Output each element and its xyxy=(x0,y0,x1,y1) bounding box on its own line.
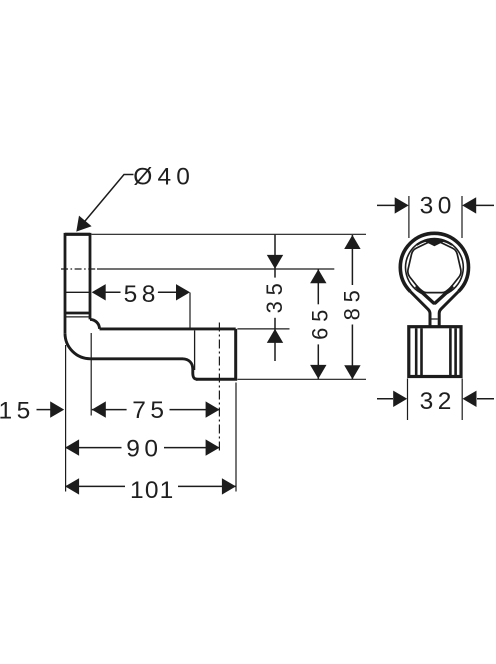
side view: elbow inner bend and pipe top edge xyxy=(90,319,236,329)
leader line for diameter 40 xyxy=(76,175,133,232)
front view: inner heptagon profile xyxy=(408,240,461,292)
svg-text:58: 58 xyxy=(124,281,160,308)
dimension 65 vertical xyxy=(310,269,326,379)
dimension 35 vertical line with outside arrows xyxy=(267,235,283,361)
front view: 32 dim extension lines xyxy=(408,379,463,421)
front view: 30 dim extension lines xyxy=(409,196,462,238)
extension line for 58 at right xyxy=(189,293,191,329)
dimension 58 xyxy=(65,284,190,300)
side view: elbow outer bend xyxy=(65,333,183,359)
centerline horizontal dash-dot through flange xyxy=(61,268,97,270)
side view: flange thin step line xyxy=(65,316,90,318)
front view: filled wedge at heptagon top vertex xyxy=(425,239,445,246)
reference line at ring-axis level xyxy=(97,268,334,270)
reference line at block top level xyxy=(237,328,289,330)
dimension row 15 / 75 xyxy=(37,401,220,417)
block vertical dash-dot centerline xyxy=(218,323,220,454)
dimension 32 xyxy=(377,391,494,407)
top reference line xyxy=(92,233,367,235)
side view: end block right edge and bottom edge xyxy=(196,329,236,379)
dimension row 90 xyxy=(65,439,220,455)
extension line tube right edge down xyxy=(90,333,92,416)
front view: inner Y converging to stem xyxy=(421,292,448,304)
svg-text:30: 30 xyxy=(420,193,456,220)
front view: base block xyxy=(409,327,461,377)
front view: base grip lines xyxy=(416,328,455,375)
front view: ring inner circle xyxy=(406,239,464,294)
svg-text:65: 65 xyxy=(308,304,333,340)
side view: wall flange tube outline xyxy=(65,234,90,333)
svg-text:90: 90 xyxy=(126,436,162,463)
front view: ring outer circle with teardrop tangents and stem xyxy=(400,233,468,291)
front view: thick grip arcs upper xyxy=(417,240,452,245)
extension line tube left edge down xyxy=(65,345,67,492)
extension line block right edge down xyxy=(235,383,237,492)
svg-text:15: 15 xyxy=(0,397,35,424)
dimension 30 xyxy=(377,197,494,213)
svg-text:32: 32 xyxy=(420,388,456,415)
white gaps under dimension texts xyxy=(121,201,456,491)
dimension 85 vertical xyxy=(344,235,360,379)
bottom reference line at block bottom level xyxy=(237,378,366,380)
svg-text:75: 75 xyxy=(132,397,168,424)
front view: thick grip arcs at lower heptagon corners xyxy=(416,286,453,293)
side view: bottom fillet into end block xyxy=(183,359,198,380)
svg-text:101: 101 xyxy=(130,477,174,504)
svg-text:Ø40: Ø40 xyxy=(133,164,195,191)
dimension row 101 xyxy=(65,478,236,494)
svg-text:35: 35 xyxy=(262,277,287,313)
svg-text:85: 85 xyxy=(340,284,365,320)
side view: end block hidden left edge xyxy=(194,331,196,371)
front view: stem cross line xyxy=(431,318,437,320)
